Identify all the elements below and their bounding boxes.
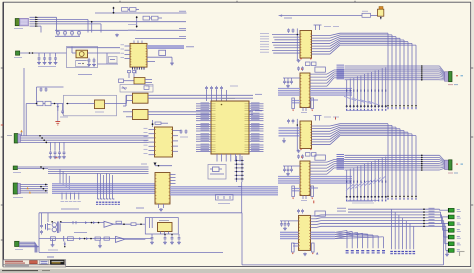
border red tick: [1, 124, 3, 126]
U10 caps above: [298, 66, 300, 68]
title block blue cell: [40, 260, 49, 264]
U10 left bus: [278, 88, 300, 90]
U11 left side: [279, 127, 301, 129]
rail to opto section: [117, 103, 127, 105]
U12 side bars below: [292, 186, 295, 197]
title block text rows: [5, 260, 23, 262]
LED return rail: [443, 228, 445, 265]
rail resistors: [26, 103, 37, 105]
U12 left bus: [278, 176, 300, 178]
silver marker bottom right: [459, 252, 461, 257]
U13 left caps: [280, 220, 299, 222]
IC U6: [155, 127, 173, 157]
J6 bundle: [19, 241, 35, 243]
resistor row with grounds y30-37: [57, 30, 59, 32]
red power gnd: [55, 121, 60, 123]
title block logo: [50, 260, 64, 264]
mid bus bundle to U7: [48, 166, 149, 168]
lower rail components: [50, 237, 55, 241]
inner box below regulator: [76, 61, 89, 67]
U9 decor above: [288, 28, 290, 30]
driver IC U10: [300, 73, 310, 108]
ground right of U3: [171, 62, 173, 63]
jumper ladder: [236, 156, 238, 182]
LED column: [448, 208, 454, 212]
bus corner fan down: [59, 169, 61, 184]
U10 right bus: [310, 88, 352, 90]
fan down x97-112 hooks: [97, 173, 99, 199]
marks below U13: [304, 253, 306, 254]
J5 wire bundle: [20, 184, 48, 186]
thick bus into U7: [52, 183, 155, 185]
U7 bottom stubs: [158, 204, 160, 208]
input cap bank: [38, 53, 40, 56]
driver IC U9: [300, 31, 312, 59]
MOSFET Q1: [47, 213, 49, 222]
U13 left bus: [280, 231, 299, 233]
crystal box below U8: [208, 165, 226, 180]
pair2 converge wedge into connector: [440, 155, 445, 161]
U9 ground below: [298, 59, 300, 60]
U12 left caps: [283, 165, 300, 167]
parts above U6: [152, 120, 154, 127]
pair2 dots row text below: [348, 200, 378, 202]
xtal circuit below: [216, 195, 234, 201]
power input wire: [20, 52, 67, 54]
component Y1: [134, 78, 145, 85]
connector J2: [16, 51, 20, 55]
section labels: [61, 208, 79, 210]
U9 left side: [272, 34, 300, 36]
driver IC U12: [300, 161, 310, 196]
U4 output wires: [148, 94, 253, 96]
pair2 U12 thin step ups: [327, 160, 334, 163]
bus from U3 with net label end: [147, 45, 184, 47]
U10 left caps: [283, 77, 300, 79]
pair1 bus ramp diagonals: [344, 96, 356, 100]
wire from ladder to section box: [241, 182, 243, 213]
transformer T1: [52, 223, 56, 227]
optocoupler U5: [133, 110, 149, 120]
decoupling caps above U8: [206, 90, 208, 101]
U13 right bus: [311, 231, 336, 233]
title block: [3, 260, 65, 265]
U10 box right-top with ramp: [315, 67, 326, 72]
U11 right wires merge and staircase: [312, 125, 331, 127]
red mark below cap bank: [55, 157, 57, 159]
U3 top stubs: [133, 41, 135, 44]
connector J6: [15, 241, 19, 246]
regulator U15 in module: [95, 100, 105, 109]
top-right corner parts: [362, 13, 371, 17]
regulator box outline: [67, 47, 98, 68]
branch above rail: [36, 87, 38, 104]
caps column left: [41, 224, 43, 226]
U12 right bus: [310, 176, 352, 178]
small box X1: [159, 50, 166, 55]
pair1 converge wedge into connector: [440, 66, 445, 73]
box right of regulator: [109, 57, 118, 64]
caps right of U6: [180, 129, 182, 131]
power ports at J5: [27, 187, 29, 189]
gray strip status text: [2, 270, 38, 272]
U8 left pins: [196, 103, 211, 105]
rail module box: [64, 95, 117, 116]
section box right edge + return wire: [39, 212, 242, 214]
U13 box above right: [315, 211, 326, 216]
marks between U6 and U7: [154, 163, 157, 166]
optocoupler U4: [133, 93, 149, 103]
pair1 resistor verticals hanging from bundle to dots row: [346, 80, 348, 106]
IC U3: [130, 43, 147, 67]
wire y15.6 to top-right cluster: [279, 15, 362, 17]
U3 left pins: [125, 45, 131, 47]
diode cluster x113: [113, 7, 115, 13]
title block red cell: [30, 261, 38, 264]
fan down with labels x62-79: [61, 193, 63, 200]
pair1 net label lines to connector: [337, 64, 345, 66]
connector J1 top-left: [15, 19, 19, 26]
upper rail diodes: [62, 222, 105, 224]
IC U7: [155, 173, 170, 205]
opamp A2: [116, 236, 126, 242]
U7 upper right pins: [170, 174, 176, 176]
junction dots J4 J5: [40, 166, 42, 168]
ground x117: [116, 34, 118, 35]
U6 left pins: [149, 129, 155, 131]
opamp A1: [104, 221, 114, 227]
opto left hooks: [125, 95, 127, 106]
lower rail: [19, 246, 39, 248]
regulator box2: [145, 218, 178, 234]
driver IC U11: [300, 121, 312, 149]
MCU U8: [211, 101, 249, 154]
cap right of zener: [62, 104, 64, 111]
U11 vertical left of IC: [296, 119, 298, 151]
U13 left frag: [293, 243, 299, 245]
border zone ticks: [1, 67, 3, 69]
power port above J3: [20, 130, 22, 133]
cap bank below J3 bundle: [50, 142, 52, 150]
trim box: [120, 85, 153, 93]
U12 marks below: [302, 196, 304, 200]
U6 right pins: [173, 130, 179, 132]
U11 ground below: [298, 150, 300, 151]
U12 right thin lines: [310, 161, 327, 163]
power rails out: [67, 47, 120, 49]
regulator U2: [76, 50, 88, 58]
connector J5: [13, 183, 17, 194]
pair2 resistor verticals hanging from bundle to dots row: [346, 170, 348, 197]
U10 side bars below: [292, 98, 295, 109]
U12 box right-top with ramp: [315, 155, 326, 160]
J3 wire bundle: [20, 135, 148, 137]
pair1 U10 thin lines step up to labels: [327, 70, 334, 74]
connector J4: [13, 166, 17, 170]
U13 caps above: [298, 209, 300, 211]
U8 bottom pins: [216, 154, 218, 162]
fan group2 from feed lines: [391, 209, 393, 249]
bold net labels below fan: [96, 201, 98, 203]
U7 right bus to pair2 wedge: [170, 186, 278, 188]
U9 right wires merge and staircase: [312, 35, 331, 37]
caps below regulator: [151, 234, 153, 236]
LED feed lines: [348, 208, 440, 210]
long horizontals top band: [55, 29, 186, 31]
driver IC U13: [299, 215, 311, 250]
grounds bottom section: [52, 239, 54, 244]
J3 junction dots: [39, 135, 41, 137]
U5 output wires: [148, 111, 253, 113]
fan group1 from U13 bus: [335, 231, 347, 233]
gnd at LED rail: [446, 250, 448, 253]
regulator output caps: [88, 57, 90, 60]
pair2 net label lines to connector: [337, 153, 345, 155]
U11 decor above: [288, 119, 290, 121]
zener to gnd: [57, 104, 59, 112]
U12 caps above: [298, 154, 300, 156]
U10 left frag: [292, 100, 300, 102]
vertical pair to power rail above: [23, 68, 25, 136]
resistor pair above opto: [128, 71, 131, 73]
U13 side bars below: [292, 243, 295, 252]
bends down from J1 bundle: [56, 17, 58, 32]
pair1 connector green: [449, 72, 452, 82]
pair2 bus ramp diagonals: [346, 185, 353, 191]
J1 wire bundle with pin arrows: [30, 16, 57, 18]
parts left of Y1: [119, 79, 124, 83]
diode cluster x138: [136, 16, 138, 28]
U10 right thin lines: [310, 73, 327, 75]
reg box left verticals: [149, 218, 151, 228]
title label above: [47, 256, 54, 258]
connector J3: [14, 134, 18, 144]
U8 right pins: [249, 103, 264, 105]
U9 vertical left of IC: [296, 28, 298, 60]
regulator U14: [158, 223, 173, 232]
outside-sheet gray strips: [0, 269, 474, 273]
U3 bottom pin row: [132, 67, 134, 70]
U10 marks below: [302, 108, 304, 112]
pair2 connector green: [449, 160, 452, 170]
U12 left frag: [292, 188, 300, 190]
